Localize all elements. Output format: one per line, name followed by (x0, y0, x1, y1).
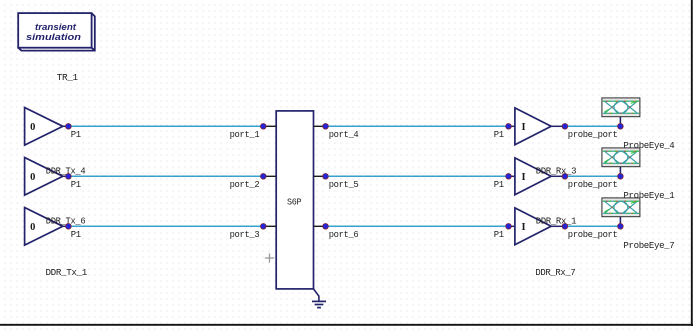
wire DDR_Tx_4 P1 to S6P port_2 (68, 175, 263, 177)
eye probe ProbeEye_1 (602, 148, 640, 176)
wire DDR_Tx_6 P1 to S6P port_3 (68, 225, 263, 227)
svg-text:0: 0 (30, 172, 35, 183)
wire DDR_Rx_7 output to ProbeEye_4 (565, 125, 621, 127)
label ProbeEye_1 (623, 190, 675, 201)
svg-text:DDR_Rx_7: DDR_Rx_7 (535, 267, 575, 278)
svg-text:port_2: port_2 (230, 179, 260, 190)
label DDR_Rx_7 (535, 267, 575, 278)
transmitter buffer DDR_Tx_6 (25, 208, 69, 246)
label ProbeEye_7 (623, 240, 674, 251)
svg-text:probe_port: probe_port (568, 229, 618, 240)
wire S6P port_6 to DDR_Rx_1 (326, 225, 509, 227)
node P1 dot (input pin of DDR_Rx_7) (494, 124, 512, 140)
svg-text:transient: transient (35, 22, 77, 33)
node probe_port dot (output of DDR_Rx_7) (562, 124, 617, 140)
transmitter buffer DDR_Tx_4 (25, 158, 69, 196)
node port_5 dot and pin stub (314, 174, 359, 190)
receiver buffer DDR_Rx_3 (509, 158, 565, 195)
svg-text:I: I (521, 222, 525, 233)
transmitter buffer DDR_Tx_1 (25, 108, 69, 146)
label ProbeEye_4 (623, 140, 675, 151)
node port_1 dot and pin stub (230, 124, 277, 140)
svg-text:P1: P1 (71, 129, 82, 140)
eye probe ProbeEye_7 (602, 198, 640, 226)
svg-text:P1: P1 (71, 229, 82, 240)
label DDR_Tx_1 (46, 267, 88, 278)
node P1 dot (input pin of DDR_Rx_1) (494, 224, 512, 240)
svg-text:P1: P1 (494, 229, 505, 240)
label DDR_Tx_4 (46, 166, 86, 177)
label DDR_Rx_3 (536, 166, 577, 177)
svg-text:port_1: port_1 (230, 129, 260, 140)
crosshair origin marker (265, 253, 274, 262)
node P1 dot (input pin of DDR_Rx_3) (494, 174, 512, 190)
svg-text:0: 0 (30, 122, 35, 133)
svg-text:P1: P1 (494, 179, 505, 190)
wire DDR_Rx_1 output to ProbeEye_7 (565, 225, 621, 227)
svg-text:0: 0 (30, 222, 35, 233)
node P1 dot (pin of DDR_Tx_4) (66, 174, 82, 190)
svg-text:S6P: S6P (287, 197, 302, 208)
node dot at ProbeEye_4 stem (618, 124, 624, 130)
svg-text:I: I (521, 122, 525, 133)
svg-text:port_3: port_3 (230, 229, 260, 240)
ground (312, 289, 326, 308)
wire DDR_Tx_1 P1 to S6P port_1 (68, 125, 263, 127)
label DDR_Tx_6 (46, 216, 86, 227)
node probe_port dot (output of DDR_Rx_3) (562, 174, 617, 190)
svg-text:DDR_Tx_1: DDR_Tx_1 (46, 267, 88, 278)
wire S6P port_4 to DDR_Rx_7 (326, 125, 509, 127)
node dot at ProbeEye_1 stem (618, 174, 624, 180)
svg-text:ProbeEye_7: ProbeEye_7 (623, 240, 674, 251)
sheet border bottom line (0, 324, 693, 326)
svg-text:P1: P1 (494, 129, 505, 140)
svg-text:P1: P1 (71, 179, 82, 190)
svg-text:port_6: port_6 (329, 229, 359, 240)
node port_3 dot and pin stub (230, 224, 277, 240)
node port_4 dot and pin stub (314, 124, 360, 140)
node port_2 dot and pin stub (230, 174, 277, 190)
svg-text:I: I (521, 172, 525, 183)
wire S6P port_5 to DDR_Rx_3 (326, 175, 509, 177)
node probe_port dot (output of DDR_Rx_1) (562, 224, 617, 240)
receiver buffer DDR_Rx_1 (509, 208, 565, 245)
node port_6 dot and pin stub (314, 224, 359, 240)
svg-text:DDR_Rx_3: DDR_Rx_3 (536, 166, 577, 177)
simulation controller TR_1 (transient simulation box) (18, 13, 95, 51)
eye probe ProbeEye_4 (602, 98, 640, 126)
wire DDR_Rx_3 output to ProbeEye_1 (565, 175, 621, 177)
svg-text:probe_port: probe_port (568, 179, 618, 190)
label TR_1 (57, 72, 79, 83)
svg-text:DDR_Rx_1: DDR_Rx_1 (536, 216, 577, 227)
svg-text:port_5: port_5 (329, 179, 359, 190)
node P1 dot (pin of DDR_Tx_6) (66, 224, 82, 240)
node dot at ProbeEye_7 stem (618, 224, 624, 230)
sheet border right line (691, 0, 693, 326)
svg-text:probe_port: probe_port (568, 129, 618, 140)
node P1 dot (pin of DDR_Tx_1) (66, 124, 82, 140)
S-parameter block S6P (276, 111, 313, 289)
svg-text:simulation: simulation (26, 32, 81, 43)
label DDR_Rx_1 (536, 216, 577, 227)
receiver buffer DDR_Rx_7 (509, 108, 565, 145)
svg-text:port_4: port_4 (329, 129, 359, 140)
svg-text:TR_1: TR_1 (57, 72, 79, 83)
